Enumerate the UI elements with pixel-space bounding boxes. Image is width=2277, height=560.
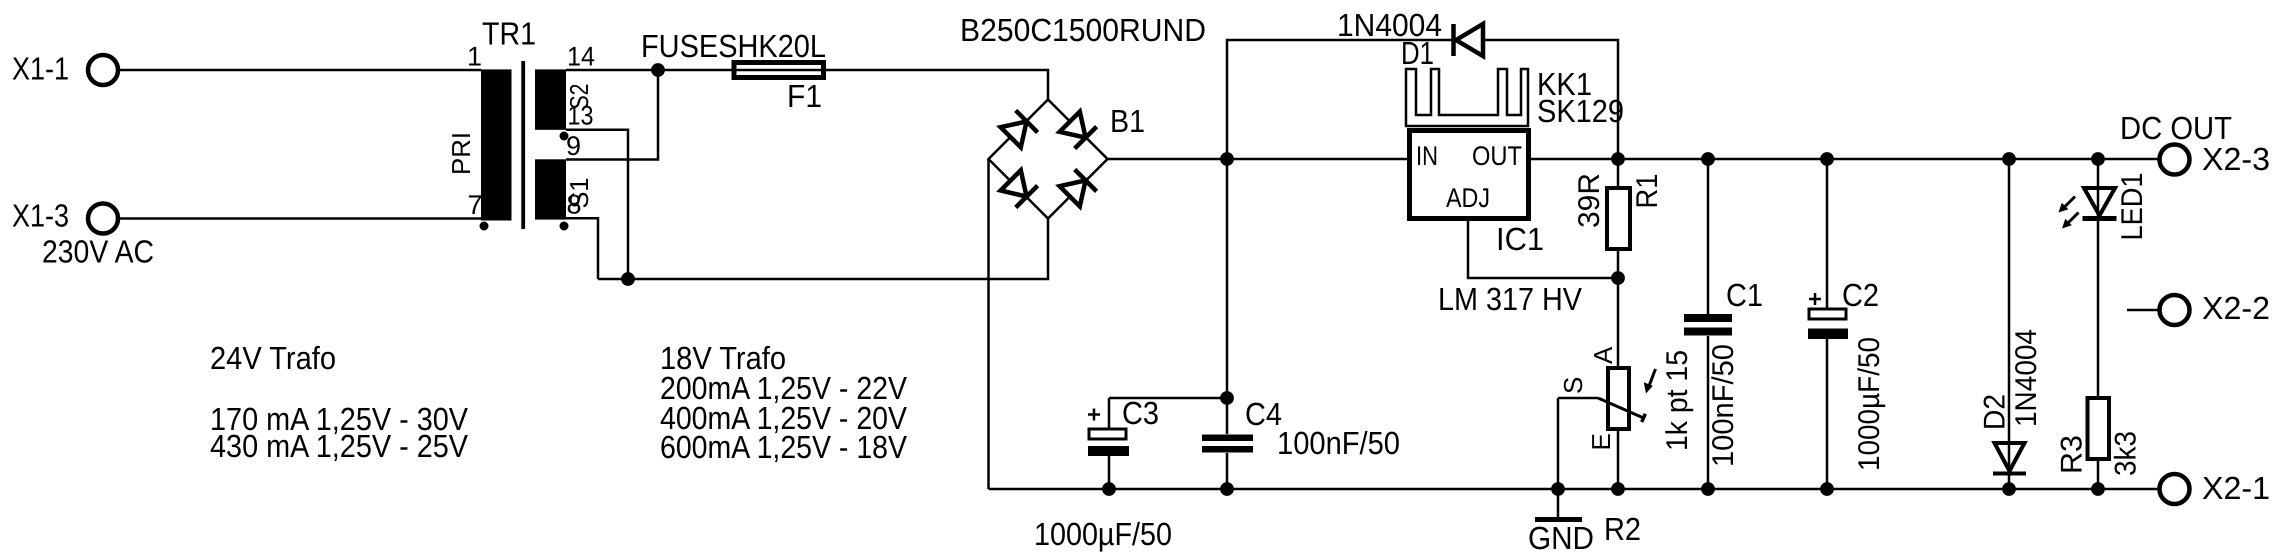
svg-text:IN: IN	[1416, 141, 1438, 171]
svg-text:230V AC: 230V AC	[42, 234, 154, 270]
svg-text:E: E	[1586, 433, 1616, 450]
svg-text:PRI: PRI	[446, 132, 476, 175]
svg-text:14: 14	[567, 42, 595, 72]
svg-text:R2: R2	[1604, 511, 1641, 547]
svg-text:1000µF/50: 1000µF/50	[1034, 516, 1172, 552]
svg-text:D2: D2	[1979, 394, 2012, 430]
svg-text:IC1: IC1	[1496, 221, 1544, 257]
svg-text:R3: R3	[2056, 435, 2089, 474]
svg-text:X2-1: X2-1	[2202, 470, 2270, 506]
svg-text:A: A	[1588, 346, 1618, 364]
svg-text:D1: D1	[1401, 35, 1434, 71]
svg-text:R1: R1	[1631, 174, 1664, 209]
svg-text:100nF/50: 100nF/50	[1277, 425, 1400, 461]
svg-text:3k3: 3k3	[2110, 431, 2143, 476]
svg-text:B1: B1	[1110, 103, 1145, 139]
svg-text:24V Trafo: 24V Trafo	[210, 340, 336, 376]
svg-text:39R: 39R	[1573, 173, 1606, 228]
svg-text:C1: C1	[1726, 277, 1763, 313]
svg-text:X2-2: X2-2	[2202, 290, 2270, 326]
svg-text:1: 1	[467, 42, 482, 72]
svg-text:C2: C2	[1842, 277, 1879, 313]
svg-text:LM 317 HV: LM 317 HV	[1438, 281, 1583, 317]
svg-text:ADJ: ADJ	[1446, 183, 1490, 213]
svg-text:S: S	[1558, 377, 1588, 394]
svg-text:1N4004: 1N4004	[2010, 329, 2043, 427]
svg-text:TR1: TR1	[482, 16, 536, 52]
svg-text:100nF/50: 100nF/50	[1707, 344, 1740, 467]
svg-text:7: 7	[468, 190, 483, 220]
svg-text:F1: F1	[787, 78, 822, 114]
svg-text:C3: C3	[1122, 395, 1159, 431]
svg-text:X1-1: X1-1	[12, 51, 69, 87]
svg-text:1000µF/50: 1000µF/50	[1853, 337, 1886, 471]
svg-text:FUSESHK20L: FUSESHK20L	[641, 28, 826, 64]
svg-text:OUT: OUT	[1472, 141, 1522, 171]
svg-text:430 mA 1,25V - 25V: 430 mA 1,25V - 25V	[210, 428, 469, 464]
svg-text:X2-3: X2-3	[2202, 141, 2270, 177]
svg-text:LED1: LED1	[2116, 173, 2149, 241]
svg-text:X1-3: X1-3	[12, 198, 69, 234]
svg-text:1k pt 15: 1k pt 15	[1661, 350, 1694, 451]
svg-text:B250C1500RUND: B250C1500RUND	[960, 12, 1206, 48]
svg-text:S1: S1	[564, 178, 594, 209]
svg-text:S2: S2	[564, 84, 594, 110]
svg-text:600mA 1,25V - 18V: 600mA 1,25V - 18V	[660, 429, 908, 465]
svg-text:SK129: SK129	[1537, 93, 1624, 129]
svg-text:GND: GND	[1528, 520, 1594, 556]
svg-text:9: 9	[566, 131, 581, 161]
